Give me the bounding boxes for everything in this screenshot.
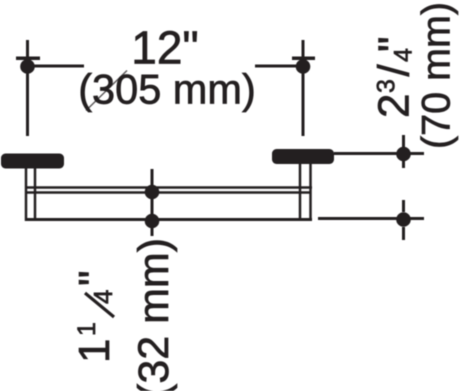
- right dim tick below top marker: [402, 160, 405, 168]
- extension line right (12" dim): [302, 40, 305, 136]
- marker dot left (12"): [20, 59, 35, 74]
- right dim tick above bottom marker: [402, 200, 405, 212]
- towel bar left end cap lines: [25, 167, 28, 221]
- svg-text:1: 1: [73, 322, 101, 336]
- svg-text:(70 mm): (70 mm): [415, 2, 459, 149]
- tick left marker: [16, 57, 40, 61]
- svg-text:1: 1: [70, 339, 119, 363]
- center line through bar (1 1/4 dim): [151, 169, 154, 236]
- marker dot right (12"): [296, 59, 311, 74]
- svg-text:/: /: [370, 64, 419, 77]
- dimension line 12" right segment: [255, 65, 301, 68]
- right dim tick below bottom marker: [402, 227, 405, 240]
- artifact diagonal line over (3: [86, 71, 127, 111]
- marker dot right top (2 3/4): [396, 147, 411, 162]
- towel bar bottom edge: [25, 218, 312, 221]
- svg-text:": ": [370, 36, 419, 52]
- svg-text:(32 mm): (32 mm): [130, 238, 178, 391]
- svg-text:3: 3: [373, 79, 401, 93]
- svg-text:4: 4: [88, 290, 118, 304]
- label (70 mm) (rotated): [415, 2, 459, 149]
- marker dot bar top (1 1/4): [145, 185, 160, 200]
- marker dot right bottom (2 3/4): [396, 212, 411, 227]
- label 1 1/4 inch (rotated): [70, 270, 119, 363]
- marker dot bar bottom (1 1/4): [145, 214, 160, 229]
- svg-text:": ": [70, 270, 119, 286]
- extension line left (12" dim): [26, 40, 29, 136]
- right dim tick above top marker: [402, 135, 405, 147]
- svg-text:2: 2: [370, 94, 419, 118]
- label (32 mm) (rotated): [130, 238, 178, 391]
- towel bar right end cap lines / post: [299, 163, 302, 221]
- leader line bottom (2 3/4 dim): [318, 217, 424, 220]
- left flange: [1, 154, 64, 169]
- dimension line 12" left segment: [29, 65, 84, 68]
- towel bar top inner line: [27, 191, 310, 194]
- tick right marker: [292, 57, 315, 61]
- towel bar top edge: [25, 186, 312, 189]
- svg-text:(305 mm): (305 mm): [78, 66, 256, 113]
- label 2 3/4 inch (rotated): [370, 36, 419, 118]
- right flange: [272, 149, 334, 164]
- leader line top (2 3/4 dim): [334, 152, 424, 155]
